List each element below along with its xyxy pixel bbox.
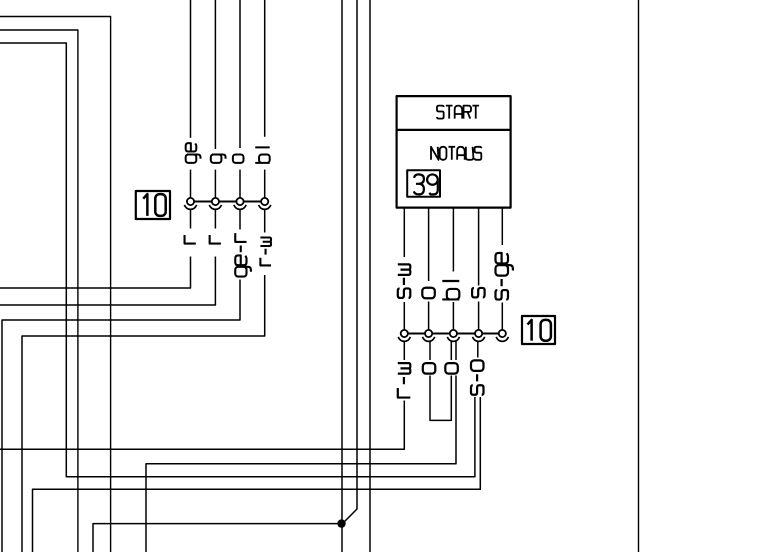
wire vertical bus A — [341, 0, 343, 552]
label r pin1 — [185, 235, 196, 244]
wire o into left connector pin3 — [239, 0, 241, 198]
junction dot — [337, 519, 345, 527]
label masks — [182, 137, 515, 401]
connector 10 left pin2 circle — [212, 198, 219, 205]
wire s-o stub right pin4 — [477, 341, 479, 358]
connector 10 right pin4 circle — [475, 330, 482, 337]
switch divider — [397, 129, 511, 131]
connector 10 left socket arcs — [184, 205, 270, 209]
wire ge-r from left pin3 — [2, 209, 240, 552]
label box 39 — [407, 170, 440, 197]
label s-o — [471, 360, 484, 394]
wire ge into left connector pin1 — [190, 0, 192, 198]
wire g into left connector pin2 — [214, 0, 216, 198]
switch box START / NOTAUS — [397, 96, 511, 208]
label ge-r — [235, 233, 251, 276]
wire bl from switch pin3 — [452, 208, 454, 330]
connector 10 right pin3 circle — [450, 330, 457, 337]
label s pin4 — [472, 288, 485, 298]
wire bl into left connector pin4 — [264, 0, 266, 198]
label o pin3 left — [233, 154, 244, 162]
label box 10 right — [522, 316, 555, 344]
wire o jumper from right pin2 — [430, 341, 451, 420]
wire right border — [638, 0, 640, 552]
connector 10 right bus — [401, 333, 506, 335]
label ge — [186, 143, 201, 163]
label o pin3 below — [445, 363, 458, 374]
connector 10 right pin5 circle — [499, 330, 506, 337]
wire r from left pin2 — [0, 209, 215, 305]
label o pin2 below — [423, 363, 436, 374]
text NOTAUS — [431, 147, 481, 160]
connector 10 left pin3 circle — [236, 198, 243, 205]
label s-ge — [496, 253, 513, 300]
text START — [437, 106, 479, 119]
wire r from left pin1 — [0, 209, 191, 288]
text 10 right — [528, 320, 551, 341]
wire vertical bus C — [369, 0, 371, 552]
label box 10 left — [136, 191, 170, 219]
label r-w left — [260, 238, 271, 266]
connector 10 left pin4 circle — [261, 198, 268, 205]
wire s-w from switch pin1 — [403, 208, 405, 330]
wire o from right pin3 — [146, 341, 456, 552]
wire s from switch pin4 — [478, 208, 480, 330]
label s-w — [398, 264, 411, 298]
wire left nest outer — [0, 17, 111, 552]
label o pin2 above — [422, 288, 435, 299]
wire junction feeder — [93, 524, 342, 552]
text 10 left — [143, 194, 166, 216]
label g — [211, 154, 226, 162]
connector 10 right pin2 circle — [425, 330, 432, 337]
wire s-o branch b from right pin4 — [33, 397, 481, 552]
connector 10 right pin1 circle — [401, 330, 408, 337]
wire r-w from left pin4 — [22, 209, 265, 552]
wire o from switch pin2 — [428, 208, 430, 330]
wire vertical bus B with jog to junction — [343, 0, 357, 523]
label bl left — [255, 147, 269, 163]
label bl right — [442, 281, 459, 299]
connector 10 right socket arcs — [398, 337, 508, 341]
wire r-w from right pin1 — [0, 341, 404, 449]
connector 10 left bus — [187, 201, 268, 203]
wire left nest middle — [0, 30, 78, 552]
label r pin2 — [210, 235, 221, 244]
text 39 — [414, 174, 438, 194]
wire left nest inner joining pin4 branch of right connector — [0, 43, 475, 477]
connector 10 left pin1 circle — [187, 198, 194, 205]
label r-w right — [398, 363, 411, 397]
wire s-ge from switch pin5 — [501, 208, 503, 330]
